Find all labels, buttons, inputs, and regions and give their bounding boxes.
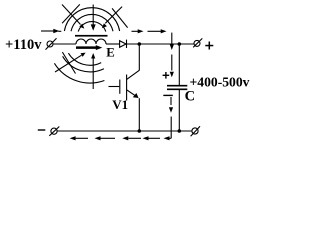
terminal output-plus xyxy=(193,38,202,47)
wire C branch top xyxy=(178,44,180,86)
node junction C-top xyxy=(178,42,182,46)
inductor E coil xyxy=(76,39,106,44)
inductor core bar xyxy=(75,35,108,37)
wire V1 emitter vertical xyxy=(138,98,140,131)
wire V1 collector vertical xyxy=(138,44,140,71)
wire diode to terminal xyxy=(127,43,195,45)
wire coil to diode xyxy=(106,43,120,45)
label C-plus xyxy=(163,72,170,79)
diode D1 triangle xyxy=(120,41,126,48)
svg-text:E: E xyxy=(106,45,115,59)
flux arrow lower-left diagonal xyxy=(55,53,86,72)
flux arrow upper-right diagonal xyxy=(102,7,128,29)
label C-minus xyxy=(163,95,173,96)
label plus top-right xyxy=(205,42,213,50)
flux arrow top vertical xyxy=(91,5,96,31)
flux arc upper inner xyxy=(78,22,106,32)
node junction V1-collector xyxy=(138,42,142,46)
EMF bold arrow xyxy=(76,45,102,50)
flux arc lower middle xyxy=(63,56,104,72)
svg-text:+400-500v: +400-500v xyxy=(190,76,250,91)
flux arc upper outer xyxy=(64,8,119,31)
dashed current arrow down through C xyxy=(169,33,174,139)
svg-text:C: C xyxy=(185,88,195,104)
svg-text:V1: V1 xyxy=(112,97,128,112)
dashed current arrows top-right xyxy=(132,29,167,33)
flux lower-left cross diagonal xyxy=(62,52,75,73)
wire input to coil xyxy=(53,43,76,45)
capacitor C plates xyxy=(167,86,187,90)
terminal input-plus xyxy=(46,38,57,49)
dashed return arrows bottom xyxy=(70,136,172,140)
label minus bottom-left xyxy=(38,129,46,130)
node junction C-bottom xyxy=(178,129,182,133)
flux arc upper middle xyxy=(71,14,113,31)
diode D1 cathode bar xyxy=(126,40,128,48)
terminal bottom-right xyxy=(191,126,200,136)
flux arrow lower vertical xyxy=(91,53,95,89)
node junction V1-emitter-bottom xyxy=(138,129,142,133)
bottom wire xyxy=(57,130,192,132)
terminal bottom-left minus xyxy=(49,127,59,136)
flux arc lower outer xyxy=(54,63,104,83)
transistor V1 xyxy=(109,70,140,100)
flux arrow upper-left diagonal xyxy=(62,4,84,28)
svg-text:+110v: +110v xyxy=(5,37,42,53)
wire top-left dashed current arrow xyxy=(41,29,61,33)
flux arc lower inner xyxy=(68,53,101,65)
wire C branch bottom xyxy=(178,89,180,131)
